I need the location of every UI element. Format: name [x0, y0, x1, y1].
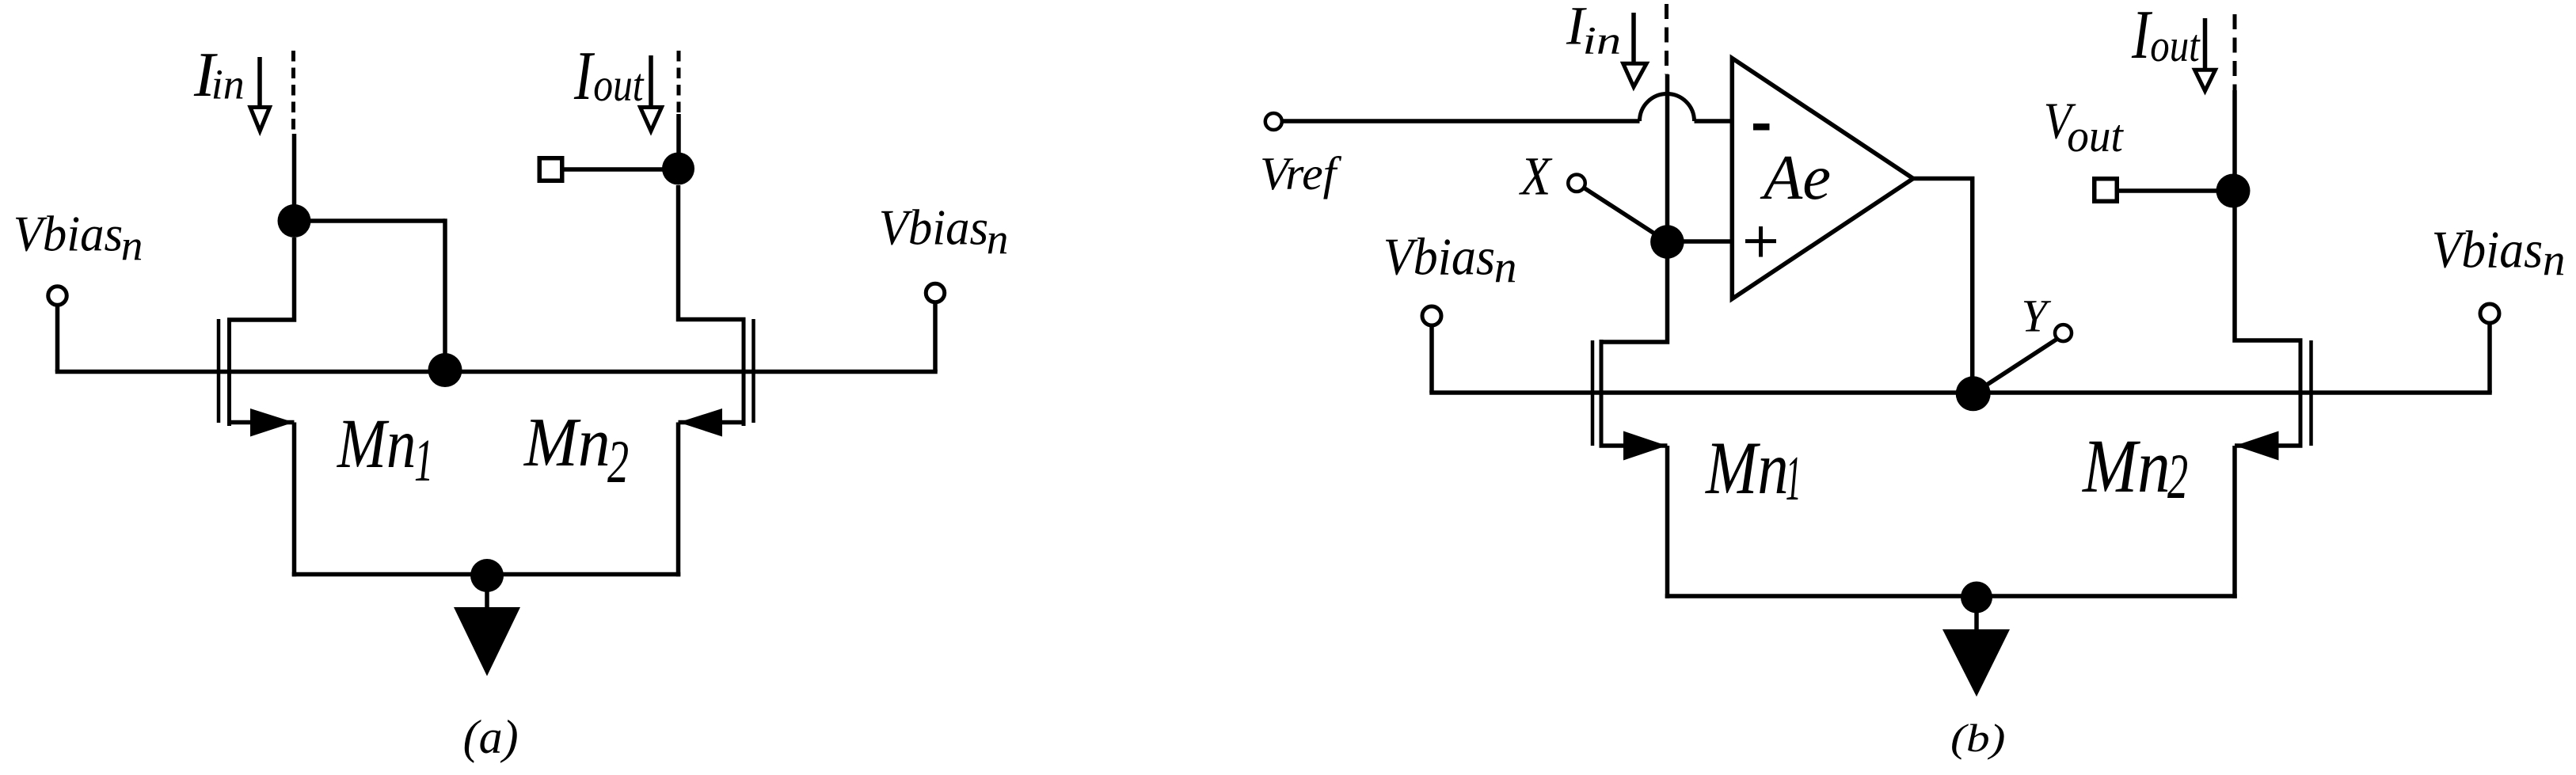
dashed wire stub I_out (b) — [2233, 14, 2237, 90]
wire: Mn1 source drop (b) — [1665, 446, 1670, 598]
svg-text:2: 2 — [2167, 440, 2188, 512]
current direction arrow I_in (b) — [1623, 13, 1647, 87]
wire: I_in down to gate node (b) — [1665, 74, 1670, 243]
wire: Vbias_n right stem (b) — [2487, 323, 2492, 393]
ground current-sink arrow (a) — [454, 576, 520, 676]
terminal: Vbias_n left (a) — [48, 287, 67, 306]
wire: diode tie horizontal (a) — [295, 218, 446, 223]
dashed wire stub I_in (a) — [291, 51, 295, 134]
label Vbias_n left (a) — [13, 206, 143, 269]
svg-text:1: 1 — [1786, 443, 1802, 514]
svg-text:Mn: Mn — [336, 405, 416, 483]
svg-text:n: n — [2543, 236, 2566, 286]
terminal: Vref (b) — [1265, 113, 1282, 130]
wire: square to node (a) — [562, 167, 678, 172]
svg-text:(b): (b) — [1950, 716, 2006, 760]
terminal: Vbias_n right (a) — [926, 283, 945, 302]
label Mn2 (a) — [523, 404, 629, 496]
wire: Vbias_n right stem (a) — [933, 302, 938, 372]
label Vbias_n left (b) — [1383, 228, 1517, 292]
ground current-sink arrow (b) — [1942, 597, 2010, 697]
node: tail junction (b) — [1961, 582, 1992, 614]
wire: Y diagonal (b) — [1973, 339, 2057, 393]
label I_in (b) — [1566, 0, 1621, 63]
terminal: Y (b) — [2055, 325, 2072, 341]
current direction arrow I_out (a) — [641, 55, 662, 131]
wire: gate bias rail (a) — [55, 370, 938, 374]
svg-text:2: 2 — [607, 427, 629, 496]
terminal: Vbias_n right (b) — [2480, 304, 2499, 323]
svg-text:Y: Y — [2022, 291, 2052, 342]
node: Vout / drain of Mn2 (b) — [2216, 174, 2251, 208]
label Vbias_n right (a) — [879, 199, 1009, 263]
svg-text:out: out — [2067, 110, 2124, 161]
svg-text:Vref: Vref — [1260, 147, 1342, 199]
op-amp U1 Ae (b) — [1732, 59, 1913, 299]
svg-text:Vbias: Vbias — [879, 199, 988, 255]
svg-text:Vbias: Vbias — [2432, 221, 2543, 279]
dashed wire stub I_in (b) — [1665, 4, 1669, 74]
label I_out (b) — [2131, 0, 2201, 73]
svg-text:out: out — [2150, 20, 2201, 71]
label I_out (a) — [573, 37, 645, 114]
node: tail junction (a) — [470, 559, 504, 592]
wire: I_out to drain node (a) — [676, 114, 681, 170]
svg-text:in: in — [1583, 18, 1622, 63]
wire: X diagonal to node (b) — [1583, 188, 1667, 242]
dashed wire stub I_out (a) — [677, 51, 681, 114]
wire: non-inverting input (b) — [1667, 239, 1734, 244]
wire: Mn1 source drop (a) — [292, 423, 297, 577]
transistor Mn1 (a) — [219, 237, 295, 437]
wire: diode tie vertical (a) — [443, 218, 447, 370]
node: gate of Mn1 / non-inverting input (b) — [1650, 225, 1684, 259]
label V_out (b) — [2044, 92, 2125, 161]
svg-text:out: out — [593, 59, 645, 111]
wire: source rail (b) — [1665, 594, 2237, 598]
label Mn1 (a) — [336, 405, 433, 494]
current direction arrow I_out (b) — [2195, 18, 2216, 91]
label Vbias_n right (b) — [2432, 221, 2566, 285]
svg-text:n: n — [121, 222, 143, 270]
terminal: X (b) — [1568, 175, 1585, 192]
transistor Mn2 (b) — [2235, 207, 2312, 461]
wire: hop to op-amp inverting input (b) — [1695, 119, 1735, 123]
node: drain/gate tie of Mn1 (a) — [278, 204, 311, 237]
svg-text:1: 1 — [414, 427, 433, 494]
node: drain of Mn2 (a) — [662, 153, 694, 185]
wire: I_out down to Vout node (b) — [2232, 90, 2237, 192]
wire: Mn2 source drop (b) — [2232, 446, 2237, 598]
svg-text:(a): (a) — [463, 711, 519, 763]
wire: gate bias rail (b) — [1429, 390, 2492, 395]
svg-text:X: X — [1518, 146, 1552, 207]
svg-text:Vbias: Vbias — [1383, 228, 1495, 286]
label Mn1 (b) — [1704, 426, 1801, 514]
svg-text:Mn: Mn — [523, 404, 611, 481]
node: gate junction (a) — [428, 353, 462, 387]
wire: Vref line (b) — [1282, 119, 1640, 123]
wire: square to Vout node (b) — [2117, 188, 2233, 193]
svg-text:Mn: Mn — [1704, 426, 1788, 510]
transistor Mn1 (b) — [1592, 258, 1668, 461]
wire: Vbias_n left stem (a) — [55, 305, 60, 371]
wire: I_in to drain node (a) — [292, 134, 297, 222]
svg-text:n: n — [987, 215, 1009, 264]
node: Y junction on gate rail (b) — [1956, 376, 1991, 411]
svg-text:I: I — [573, 37, 595, 114]
svg-text:in: in — [211, 61, 245, 108]
wire: Mn2 source drop (a) — [676, 423, 681, 577]
svg-text:n: n — [1494, 243, 1517, 293]
svg-text:Ae: Ae — [1760, 142, 1831, 213]
hop over I_in wire (b) — [1640, 94, 1695, 122]
label I_in (a) — [193, 40, 245, 110]
current direction arrow I_in (a) — [250, 57, 270, 131]
transistor Mn2 (a) — [679, 185, 754, 437]
wire: source rail (a) — [292, 572, 681, 577]
label Mn2 (b) — [2081, 424, 2188, 512]
svg-text:Vbias: Vbias — [13, 206, 123, 261]
terminal: Vbias_n left (b) — [1422, 306, 1441, 325]
svg-text:Mn: Mn — [2081, 424, 2170, 508]
wire: Vbias_n left stem (b) — [1429, 325, 1434, 393]
terminal: output square (a) — [539, 158, 562, 181]
terminal: Vout square (b) — [2095, 179, 2117, 202]
wire: op-amp output to gate rail (b) — [1913, 179, 1973, 394]
